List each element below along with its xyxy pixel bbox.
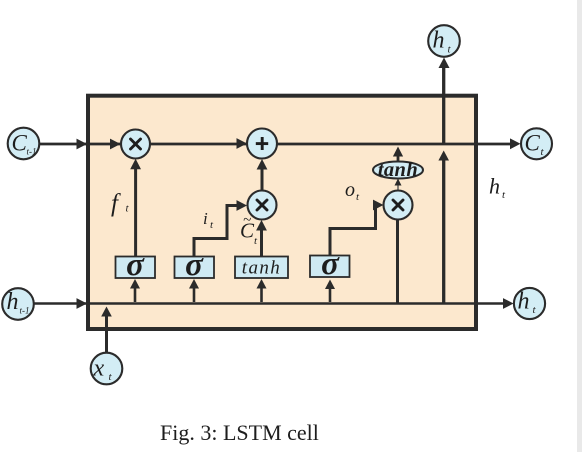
node C_t output circle — [521, 128, 552, 159]
wire bus to sigma2 — [193, 287, 196, 302]
svg-text:t-1: t-1 — [27, 147, 37, 157]
svg-text:h: h — [433, 28, 445, 54]
arrowhead into plus-gate — [237, 138, 248, 149]
arrowhead into h_t top circle — [439, 58, 450, 69]
node h_t top output circle — [428, 25, 460, 57]
arrowhead into x-gate 1 — [110, 139, 121, 150]
svg-text:i: i — [203, 209, 208, 228]
node h_t-1 input circle — [2, 288, 34, 320]
arrowhead x_t into bus — [101, 307, 112, 317]
svg-text:C: C — [12, 131, 28, 156]
gate mid x-gate (input) — [248, 191, 277, 220]
wire i path (sigma2 bent to mid x-gate) — [194, 206, 244, 257]
wire tanh ellipse up to C line — [397, 153, 400, 162]
svg-text:σ: σ — [321, 246, 340, 282]
wire bus to tanh box — [260, 287, 263, 302]
wire right x-gate up to tanh ellipse — [397, 182, 399, 191]
svg-text:h: h — [518, 289, 530, 315]
gate right x-gate (output) — [384, 191, 413, 220]
arrowhead i into mid x-gate — [237, 200, 248, 211]
scrollbar track — [577, 0, 582, 452]
wire f path (sigma1 up to x-gate) — [134, 165, 137, 257]
svg-text:o: o — [345, 179, 355, 201]
tanh ellipse — [373, 162, 423, 179]
wire o path (sigma4 bent to right x-gate) — [330, 205, 380, 256]
LSTM cell body box — [88, 96, 476, 329]
svg-text:t-1: t-1 — [20, 306, 30, 316]
wire cell-state line C — [39, 143, 516, 146]
svg-text:tanh: tanh — [378, 159, 418, 181]
node C_t-1 input circle — [8, 128, 40, 160]
arrowhead f into x-gate1 bottom — [130, 159, 141, 170]
svg-text:h: h — [489, 174, 500, 199]
wire mid x-gate to plus-gate — [261, 165, 264, 191]
sigma box 4 — [310, 256, 350, 278]
svg-text:tanh: tanh — [242, 258, 281, 279]
arrowhead o into right x-gate — [373, 200, 384, 211]
arrowhead bus into sigma1 — [130, 279, 140, 289]
node h_t bottom output circle — [514, 288, 545, 319]
arrowhead bus into tanh box — [257, 279, 267, 289]
arrowhead tanh into C line — [393, 147, 403, 157]
wire h vertical lower segment — [442, 158, 445, 304]
svg-text:C: C — [525, 131, 541, 156]
arrowhead into h_t bottom circle — [503, 298, 514, 309]
svg-text:σ: σ — [126, 247, 145, 283]
tanh box — [235, 257, 288, 279]
svg-text:~: ~ — [243, 213, 251, 229]
wire bus to sigma4 — [329, 288, 332, 302]
wire bus to sigma1 — [134, 287, 137, 302]
arrowhead h_t-1 into box — [77, 298, 88, 309]
arrowhead into C_t circle — [510, 138, 521, 149]
arrowhead small into tanh ellipse — [395, 179, 402, 186]
wire bottom bus h — [33, 302, 508, 305]
gate plus-gate — [247, 129, 277, 159]
svg-text:x: x — [93, 356, 105, 382]
node x_t input circle — [91, 353, 123, 385]
svg-text:h: h — [7, 289, 19, 315]
arrowhead h vertical under C line — [438, 151, 449, 161]
arrowhead C into box — [77, 139, 88, 150]
arrowhead mid x-gate into plus bottom — [257, 159, 268, 170]
svg-text:Fig. 3: LSTM cell: Fig. 3: LSTM cell — [160, 420, 319, 445]
wire right x-gate down to bus — [396, 218, 399, 304]
arrowhead C~ into mid x-gate bottom — [256, 220, 267, 231]
svg-text:σ: σ — [185, 247, 204, 283]
sigma box 1 — [116, 257, 156, 279]
wire h vertical upper segment to top — [442, 62, 445, 145]
wire C~ path (tanh box up to mid x-gate) — [260, 226, 263, 257]
sigma box 2 — [175, 257, 215, 279]
gate x-gate 1 (forget) — [121, 130, 150, 159]
wire x_t up into bus — [105, 312, 108, 353]
arrowhead bus into sigma2 — [189, 279, 199, 289]
arrowhead bus into sigma4 — [325, 280, 335, 290]
